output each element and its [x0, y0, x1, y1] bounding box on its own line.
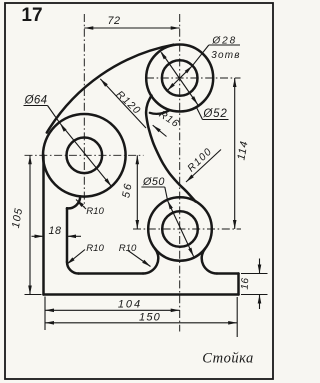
dim O50 diameter line: [168, 201, 194, 257]
left edge line: [42, 155, 45, 294]
base top edge right segment: [217, 272, 239, 275]
svg-text:18: 18: [48, 225, 61, 237]
dim 105 line: [29, 155, 31, 294]
svg-text:17: 17: [21, 5, 42, 26]
dim 16 ext top: [241, 273, 268, 275]
dim 56 top arrow: [136, 155, 140, 164]
dim O52 leader: [196, 107, 202, 120]
dim O50 arrow lower: [188, 248, 193, 257]
dim 104 left arrow: [45, 309, 54, 313]
base top edge left segment: [79, 272, 144, 275]
dim O28 arrow lower: [167, 83, 175, 91]
dim O52 underline: [203, 119, 229, 121]
dim 104 ext left: [44, 297, 46, 331]
dim R10 boss arrow: [142, 260, 150, 267]
dim R16 arrow: [153, 125, 161, 132]
dim 114 top arrow: [233, 78, 237, 87]
centerline top boss horizontal: [146, 77, 241, 79]
hole O28 in bottom boss: [162, 211, 198, 247]
dim O52 arrow lower: [191, 96, 198, 104]
dim O64 arrow upper: [60, 123, 67, 131]
dim 16 line below: [259, 295, 261, 310]
svg-text:Ø52: Ø52: [202, 108, 227, 120]
dim 105 bottom arrow: [28, 286, 32, 295]
dim 56 line: [136, 155, 138, 229]
leg right edge: [66, 208, 69, 262]
svg-text:3отв: 3отв: [211, 50, 240, 61]
dim O64 leader: [48, 106, 61, 124]
dim O52 diameter line: [162, 53, 199, 106]
fillet R10 leg top: [67, 196, 80, 208]
dim R10 boss leader: [128, 251, 151, 267]
dim O52 arrow upper: [160, 51, 167, 59]
dim 56 bottom arrow: [136, 220, 140, 229]
svg-text:Ø28: Ø28: [211, 36, 237, 47]
dim O28 diameter line: [167, 66, 192, 91]
dim 72 left arrow: [84, 26, 93, 30]
boss O64 outer circle: [43, 114, 126, 197]
dim 72 line: [84, 27, 179, 29]
svg-text:56: 56: [120, 181, 135, 199]
dim R10 leg bottom arrow: [67, 257, 75, 264]
dim 150 ext right: [236, 297, 238, 337]
svg-text:16: 16: [240, 277, 252, 290]
boss O52 outer circle: [146, 45, 213, 112]
R16 fillet under top boss: [150, 110, 170, 114]
dim R10 leg top leader: [76, 200, 86, 210]
svg-text:R100: R100: [186, 146, 215, 174]
dim O28 leader: [192, 45, 209, 66]
dim O64 underline: [24, 105, 48, 107]
hole O28 in left boss: [67, 138, 103, 174]
dim O50 underline: [141, 186, 164, 188]
dim 18 left arrow: [35, 235, 44, 239]
svg-text:72: 72: [107, 15, 120, 27]
dim O64 diameter line: [60, 123, 112, 186]
svg-text:Стойка: Стойка: [202, 351, 254, 367]
base bottom edge: [44, 293, 239, 296]
dim R10 leg bottom leader: [67, 250, 86, 265]
dim 72 right arrow: [171, 26, 180, 30]
dim 150 right arrow: [228, 321, 237, 325]
fillet R10 leg bottom: [67, 262, 79, 274]
dim 105 ext line bottom: [25, 294, 42, 296]
dim 104 right arrow: [171, 309, 180, 313]
dim 114 bottom arrow: [233, 220, 237, 229]
dim 16 arrow up: [258, 295, 262, 304]
svg-text:105: 105: [10, 207, 25, 229]
centerline bottom boss horizontal: [133, 228, 241, 230]
dim 105 top arrow: [28, 155, 32, 164]
centerline left boss vertical: [83, 14, 85, 207]
centerline top/bottom boss vertical: [179, 14, 181, 332]
boss O50 outer circle: [148, 197, 212, 261]
svg-text:114: 114: [235, 140, 250, 161]
dim 150 line: [45, 322, 237, 324]
dim 16 ext bottom: [241, 294, 268, 296]
svg-text:104: 104: [118, 299, 142, 311]
svg-text:Ø64: Ø64: [24, 95, 48, 107]
dim R16 leader: [153, 125, 167, 136]
dim 18 left line: [32, 235, 44, 237]
dim 18 right arrow: [67, 235, 76, 239]
dim 114 line: [234, 78, 236, 229]
svg-text:R10: R10: [86, 243, 104, 254]
dim R100 leader: [186, 150, 221, 183]
R100 neck curve: [146, 96, 195, 202]
centerline left boss horizontal: [25, 154, 144, 156]
dim O28 arrow upper: [185, 66, 193, 74]
dim O50 arrow upper: [168, 201, 173, 210]
svg-text:Ø50: Ø50: [142, 176, 165, 188]
dim 18 right line: [67, 235, 81, 237]
dim 104 line: [45, 309, 180, 311]
dim 150 left arrow: [45, 321, 54, 325]
dim 16 line above: [259, 259, 261, 274]
fillet R10 bottom boss left: [143, 249, 158, 274]
dim R120 leader: [100, 79, 146, 128]
dim R100 arrow: [186, 175, 194, 183]
R120 outer arc: [47, 45, 174, 133]
dim R120 arrow: [100, 79, 108, 87]
svg-text:R120: R120: [114, 89, 143, 117]
dim R10 leg top arrow: [76, 200, 84, 208]
base right edge: [237, 274, 240, 295]
svg-text:R10: R10: [119, 243, 137, 254]
dim O28 shelf: [209, 44, 240, 46]
dim O64 arrow lower: [105, 178, 112, 186]
svg-text:R10: R10: [86, 206, 104, 217]
dim 16 arrow down: [258, 265, 262, 274]
fillet R10 bottom boss right: [202, 249, 217, 274]
svg-text:150: 150: [139, 312, 161, 324]
hole O28 in top boss: [162, 60, 198, 96]
dim O50 leader: [165, 187, 168, 200]
